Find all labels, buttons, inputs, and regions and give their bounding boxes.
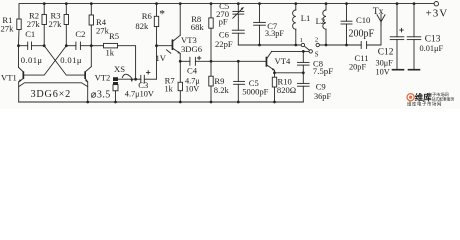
svg-text:1k: 1k <box>106 47 115 57</box>
node XS ground <box>114 101 117 104</box>
node R4 top <box>90 2 93 5</box>
svg-text:20pF: 20pF <box>349 63 366 72</box>
svg-text:10V: 10V <box>185 84 199 93</box>
svg-text:27k: 27k <box>49 19 63 29</box>
capacitor C6 <box>232 30 244 45</box>
transistor VT3 <box>157 4 181 62</box>
svg-text:82k: 82k <box>135 21 149 31</box>
svg-text:C4: C4 <box>187 66 198 76</box>
svg-text:C2: C2 <box>75 29 85 39</box>
node VT4 emitter <box>273 71 276 74</box>
wire VT3 emitter line <box>180 60 190 62</box>
capacitor C8 <box>298 50 310 73</box>
node VT3 collector top <box>179 2 182 5</box>
svg-text:200pF: 200pF <box>349 28 375 39</box>
svg-text:2: 2 <box>315 37 318 44</box>
switch S common <box>309 50 312 53</box>
svg-text:27k: 27k <box>96 26 110 36</box>
wire oscillator tank line <box>238 44 301 46</box>
wire mic line <box>118 78 136 80</box>
plug arrow <box>122 74 133 82</box>
capacitor C2 <box>76 42 91 50</box>
capacitor C5b 5000pF <box>234 61 245 102</box>
svg-text:3DG6: 3DG6 <box>181 44 203 54</box>
svg-text:C11: C11 <box>355 53 369 63</box>
transistor VT2 <box>84 46 91 102</box>
node R3 top <box>65 2 68 5</box>
node C8 C9 <box>302 71 305 74</box>
node C13 top <box>413 2 416 5</box>
svg-text:0.01μF: 0.01μF <box>420 44 444 53</box>
node L1 top <box>294 2 297 5</box>
resistor R3 <box>64 4 68 46</box>
resistor R2 <box>42 4 46 46</box>
label box 3DG6x2 <box>19 83 88 87</box>
svg-text:维库电子市场网: 维库电子市场网 <box>407 100 442 107</box>
svg-text:68k: 68k <box>191 22 205 32</box>
wire contact2 to C11 <box>320 44 362 46</box>
node C5b ground <box>237 101 240 104</box>
node C10 bottom <box>345 44 348 47</box>
svg-text:3.3pF: 3.3pF <box>265 29 285 38</box>
node C12 top <box>396 2 399 5</box>
capacitor C11 <box>361 22 381 49</box>
wire C3 to VT3 base <box>156 46 158 79</box>
svg-text:5000pF: 5000pF <box>242 87 268 97</box>
svg-text:*: * <box>159 9 165 21</box>
node C7 bottom <box>258 44 261 47</box>
switch contact 1 <box>301 43 304 46</box>
svg-text:VT2: VT2 <box>95 72 111 82</box>
node L1 bottom <box>294 44 297 47</box>
wire R3 bottom to C2 <box>66 45 76 47</box>
capacitor C5 variable <box>233 4 244 31</box>
node R8 top <box>210 2 213 5</box>
capacitor C4 <box>190 56 211 65</box>
wire to VT4 base <box>238 60 265 62</box>
capacitor C7 <box>254 4 266 45</box>
node R2 top <box>43 2 46 5</box>
resistor R7 <box>178 61 182 102</box>
capacitor C3 <box>136 71 157 83</box>
node R8 R9 VT4 base <box>210 60 213 63</box>
svg-text:C9: C9 <box>316 81 326 91</box>
node L2 top <box>325 2 328 5</box>
capacitor C13 <box>407 4 421 70</box>
switch contact 2 <box>316 43 319 46</box>
node C5b top <box>237 60 240 63</box>
node R2 bottom <box>43 44 46 47</box>
node VT3 base / R6 bottom <box>155 44 158 47</box>
terminal +3V <box>434 2 438 6</box>
svg-text:36pF: 36pF <box>314 92 331 101</box>
svg-text:R6: R6 <box>142 11 153 21</box>
svg-text:1k: 1k <box>165 84 174 93</box>
resistor R1 <box>17 19 21 46</box>
svg-text:3DG6×2: 3DG6×2 <box>31 89 72 100</box>
svg-text:C12: C12 <box>378 48 394 58</box>
wire to C5b node <box>211 60 238 62</box>
node VT1 collector / C1 <box>17 44 20 47</box>
svg-text:1V: 1V <box>156 53 167 63</box>
svg-text:10V: 10V <box>376 68 390 77</box>
svg-text:C10: C10 <box>356 15 370 25</box>
node C5 top <box>237 2 240 5</box>
capacitor C9 <box>298 73 310 102</box>
wire VT4 collector to switch <box>272 50 309 52</box>
svg-text:0.01μ: 0.01μ <box>21 55 43 65</box>
svg-text:+3V: +3V <box>426 7 449 19</box>
wire VT4 emitter line <box>275 72 304 74</box>
svg-text:820Ω: 820Ω <box>277 85 296 95</box>
wire ground bus <box>19 101 304 103</box>
resistor R10 <box>272 73 276 102</box>
resistor R8 <box>209 4 213 62</box>
annotation 1V tick <box>167 50 171 53</box>
svg-text:Tx: Tx <box>373 6 384 17</box>
svg-text:27k: 27k <box>27 19 41 29</box>
capacitor C12 electrolytic <box>390 4 404 70</box>
node R7 top <box>179 60 182 63</box>
transistor VT1 <box>18 46 24 102</box>
wire top +3V bus <box>19 4 434 19</box>
resistor R4 <box>89 4 93 46</box>
svg-text:4.7μ10V: 4.7μ10V <box>125 89 154 98</box>
svg-text:pF: pF <box>219 16 228 26</box>
resistor R6 <box>154 4 158 46</box>
node R4 bottom / VT2 collector <box>90 44 93 47</box>
node VT2 emitter ground <box>86 101 89 104</box>
svg-text:VT4: VT4 <box>275 56 291 66</box>
connector XS jack <box>113 77 118 102</box>
switch arm <box>305 47 309 51</box>
svg-text:30μF: 30μF <box>376 58 394 67</box>
inductor L2 <box>323 4 326 45</box>
svg-text:R5: R5 <box>109 31 119 41</box>
svg-text:8.2k: 8.2k <box>214 85 230 95</box>
node R10 ground <box>273 101 276 104</box>
wire cross coupling VT2 base <box>44 46 84 75</box>
node C7 top <box>258 2 261 5</box>
node R6 top <box>155 2 158 5</box>
node C10 top <box>345 2 348 5</box>
node R3 bottom <box>65 44 68 47</box>
node R9 ground <box>210 101 213 104</box>
antenna Tx <box>377 14 385 25</box>
svg-text:C1: C1 <box>25 29 35 39</box>
node R7 ground <box>179 101 182 104</box>
resistor R9 <box>209 61 213 102</box>
svg-text:S: S <box>315 51 319 58</box>
svg-text:XS: XS <box>114 64 125 74</box>
svg-text:C3: C3 <box>138 80 148 90</box>
svg-text:VT1: VT1 <box>1 72 17 82</box>
wire audio line left <box>19 45 28 47</box>
capacitor C1 <box>28 42 45 50</box>
svg-text:22pF: 22pF <box>215 39 233 49</box>
resistor R5 <box>91 43 135 79</box>
watermark logo <box>407 91 455 107</box>
svg-text:27k: 27k <box>1 24 15 34</box>
svg-text:⌀3.5: ⌀3.5 <box>91 89 111 100</box>
ground C12 <box>393 69 404 71</box>
capacitor C10 <box>341 4 352 45</box>
svg-text:0.01μ: 0.01μ <box>60 55 82 65</box>
svg-text:7.5pF: 7.5pF <box>313 66 333 76</box>
transistor VT4 <box>266 51 276 72</box>
svg-text:L1: L1 <box>301 13 311 23</box>
wire cross coupling VT1 base <box>24 46 66 75</box>
svg-text:1: 1 <box>300 37 303 44</box>
svg-text:L2: L2 <box>316 16 326 26</box>
node L2 bottom <box>325 44 328 47</box>
inductor L1 <box>293 4 296 45</box>
node C3 left <box>134 78 137 81</box>
ground C13 <box>409 69 420 71</box>
